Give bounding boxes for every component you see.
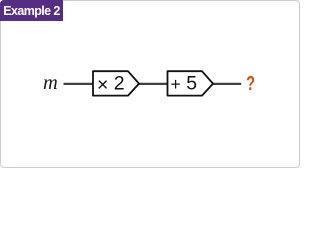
svg-text:× 2: × 2	[97, 72, 125, 96]
svg-text:m: m	[43, 72, 58, 94]
svg-text:?: ?	[246, 72, 255, 95]
svg-text:+ 5: + 5	[171, 72, 198, 94]
